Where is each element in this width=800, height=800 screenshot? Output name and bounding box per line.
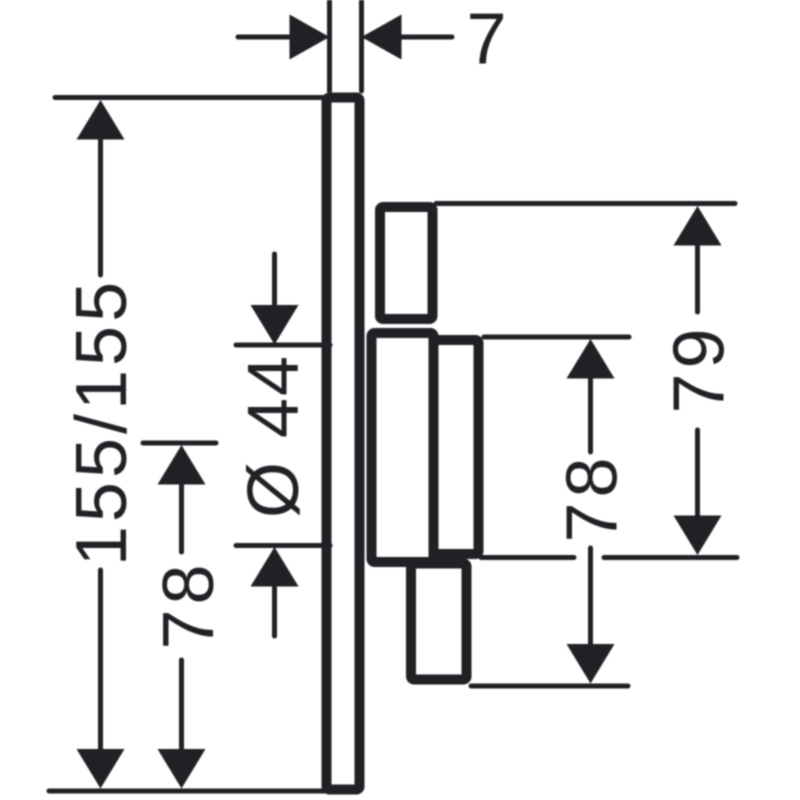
dim Ø44: upper leader line bbox=[272, 254, 277, 307]
dim 78 right: lower line segment bbox=[588, 548, 593, 644]
dim 78 left: extension line at plate centre bbox=[143, 441, 216, 446]
dim 78 left: down arrow bbox=[158, 749, 206, 789]
dim 7: left dimension line bbox=[238, 35, 294, 40]
wall plate (escutcheon, side view) bbox=[327, 98, 360, 790]
dim 78 left: up arrow bbox=[158, 445, 206, 485]
main housing sleeve bbox=[372, 333, 434, 562]
dim Ø44: up arrow bbox=[251, 547, 299, 587]
handle knob (front cap, side view) bbox=[434, 340, 479, 554]
dim 79: bottom extension line left part bbox=[481, 555, 574, 560]
dim 7: left extension line bbox=[327, 0, 332, 91]
dim 78 right: bottom extension line bbox=[471, 684, 628, 689]
dim 155/155: up arrow bbox=[77, 100, 125, 140]
dim Ø44: lower dimension line bbox=[236, 543, 330, 548]
dim 79: down arrow bbox=[674, 516, 722, 556]
dim 79: top extension line bbox=[436, 201, 735, 206]
dim Ø44: down arrow bbox=[251, 305, 299, 345]
dim 155/155: upper line segment bbox=[98, 138, 103, 275]
dim 78 right: up arrow bbox=[567, 339, 615, 379]
dim 155/155: down arrow bbox=[77, 749, 125, 789]
dim 78 left: lower line segment bbox=[179, 660, 184, 751]
svg-text:7: 7 bbox=[466, 0, 506, 80]
dim Ø44: lower leader line bbox=[272, 585, 277, 636]
dim 78 right: top extension line bbox=[484, 335, 629, 340]
dim 79: upper line segment bbox=[695, 244, 700, 312]
svg-text:79: 79 bbox=[660, 323, 740, 413]
svg-text:155/155: 155/155 bbox=[62, 278, 142, 566]
dim 155/155: bottom extension line bbox=[49, 789, 330, 794]
dim 155/155: lower line segment bbox=[98, 570, 103, 751]
svg-text:Ø 44: Ø 44 bbox=[234, 354, 314, 518]
dim Ø44: upper dimension line bbox=[236, 343, 330, 348]
dim 7: right dimension line bbox=[398, 35, 452, 40]
dim 78 right: upper line segment bbox=[588, 377, 593, 452]
dim 155/155: top extension line bbox=[55, 95, 330, 100]
dim 79: up arrow bbox=[674, 206, 722, 246]
dim 7: left arrow bbox=[290, 15, 330, 60]
dim 79: lower line segment bbox=[695, 430, 700, 518]
dim 78 right: down arrow bbox=[567, 644, 615, 684]
svg-text:78: 78 bbox=[553, 452, 633, 542]
dim 7: right extension line bbox=[359, 0, 364, 91]
dim 78 left: upper line segment bbox=[179, 483, 184, 552]
dim 7: right arrow bbox=[362, 15, 402, 60]
upper block (top valve housing) bbox=[380, 207, 433, 319]
svg-text:78: 78 bbox=[149, 559, 229, 649]
dim 79: bottom extension line right part bbox=[604, 555, 737, 560]
lower block (bottom connector housing) bbox=[411, 564, 467, 680]
